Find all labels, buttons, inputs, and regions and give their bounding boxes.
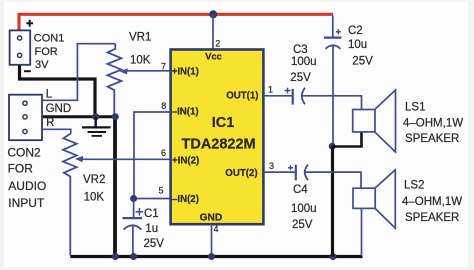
svg-text:FOR: FOR xyxy=(8,162,34,176)
node bottom bus junctions xyxy=(112,253,119,260)
svg-text:5: 5 xyxy=(158,185,163,195)
wire VR2 wiper to pin 6 xyxy=(80,158,170,160)
wire L input to VR1 top xyxy=(42,44,115,101)
svg-text:AUDIO: AUDIO xyxy=(8,179,46,193)
svg-text:–IN(1): –IN(1) xyxy=(172,106,199,117)
svg-text:C1: C1 xyxy=(144,208,159,220)
svg-text:25V: 25V xyxy=(292,219,313,231)
svg-text:FOR: FOR xyxy=(35,46,58,58)
svg-text:CON1: CON1 xyxy=(34,33,65,45)
svg-text:IC1: IC1 xyxy=(212,115,235,131)
node speaker return junction xyxy=(329,143,336,150)
svg-text:10u: 10u xyxy=(348,39,367,51)
svg-text:2: 2 xyxy=(215,39,220,49)
svg-text:C4: C4 xyxy=(293,184,308,196)
capacitor C3 xyxy=(285,88,305,105)
label CON1 minus xyxy=(24,70,31,72)
wire pin2 Vcc stub xyxy=(212,14,214,49)
connector CON2 xyxy=(9,95,42,141)
svg-text:SPEAKER: SPEAKER xyxy=(405,212,459,224)
svg-text:1u: 1u xyxy=(145,223,158,235)
wire C4 to LS2 xyxy=(305,172,362,188)
wire pin 8 to pin 5 loop xyxy=(134,112,170,199)
wire pin 5 xyxy=(134,198,170,200)
wire main ground rail vertical (black) xyxy=(113,117,117,257)
wire +3V red supply rail xyxy=(19,14,333,30)
wire C3 to LS1 xyxy=(302,96,362,110)
svg-text:R: R xyxy=(46,117,54,129)
wire CON1 minus to ground junction (black) xyxy=(20,65,96,117)
svg-text:6: 6 xyxy=(161,148,166,158)
svg-text:100u: 100u xyxy=(291,203,317,215)
svg-text:3V: 3V xyxy=(35,59,49,71)
svg-text:3: 3 xyxy=(269,161,274,171)
resistor VR1 xyxy=(108,44,122,114)
svg-text:+IN(2): +IN(2) xyxy=(172,155,199,166)
label CON1 plus xyxy=(26,20,33,27)
svg-text:25V: 25V xyxy=(290,72,311,84)
wire LS1 return (black) xyxy=(333,132,362,147)
svg-text:INPUT: INPUT xyxy=(8,196,45,210)
svg-text:OUT(2): OUT(2) xyxy=(225,168,257,179)
node ground junction 2 xyxy=(112,113,119,120)
svg-text:LS1: LS1 xyxy=(405,102,425,114)
svg-text:100u: 100u xyxy=(291,56,317,68)
svg-text:VR2: VR2 xyxy=(83,174,105,186)
speaker LS2 xyxy=(353,170,395,228)
capacitor C1 xyxy=(123,199,144,257)
connector CON1 xyxy=(10,30,31,64)
wire junction to bottom bus (black) xyxy=(331,146,334,256)
node ground junction 1 xyxy=(92,113,99,120)
svg-text:GND: GND xyxy=(200,212,223,223)
svg-text:C3: C3 xyxy=(293,44,308,56)
svg-text:8: 8 xyxy=(161,101,166,111)
wire R input to VR2 top xyxy=(42,129,71,133)
wire VR1 wiper to pin 7 xyxy=(125,70,171,72)
wire OUT(1) pin 1 to C3 xyxy=(263,95,292,97)
svg-text:L: L xyxy=(46,89,53,101)
svg-text:OUT(1): OUT(1) xyxy=(226,90,258,101)
capacitor C4 xyxy=(288,165,308,181)
svg-text:C2: C2 xyxy=(348,25,363,37)
svg-text:25V: 25V xyxy=(144,238,165,250)
svg-text:GND: GND xyxy=(46,103,72,115)
svg-text:LS2: LS2 xyxy=(404,180,424,192)
capacitor C2 xyxy=(324,16,341,147)
speaker LS1 xyxy=(353,90,396,152)
svg-text:–IN(2): –IN(2) xyxy=(172,194,199,205)
svg-text:25V: 25V xyxy=(352,56,373,68)
svg-text:7: 7 xyxy=(161,61,166,71)
svg-text:TDA2822M: TDA2822M xyxy=(182,136,256,152)
svg-text:4–OHM,1W: 4–OHM,1W xyxy=(403,118,463,130)
svg-text:+IN(1): +IN(1) xyxy=(172,67,199,78)
svg-text:4–OHM,1W: 4–OHM,1W xyxy=(402,196,462,208)
svg-text:CON2: CON2 xyxy=(7,145,41,159)
wire CON2 GND to ground rail (black) xyxy=(42,115,115,118)
ground xyxy=(82,117,111,136)
wire OUT(2) pin 3 to C4 xyxy=(263,171,295,173)
node pin5 / C1 junction xyxy=(130,195,137,202)
svg-text:VR1: VR1 xyxy=(129,31,151,43)
svg-text:10K: 10K xyxy=(84,192,105,204)
op-amp U1 IC1 TDA2822M xyxy=(171,50,264,225)
svg-text:1: 1 xyxy=(268,85,273,95)
wire LS2 return xyxy=(361,208,363,256)
svg-text:4: 4 xyxy=(214,224,219,234)
wire bottom ground bus (black) xyxy=(70,255,362,258)
node Vcc junction on red rail xyxy=(209,10,217,18)
resistor VR2 xyxy=(63,133,77,255)
wire pin 4 stub xyxy=(211,225,213,257)
svg-text:10K: 10K xyxy=(130,55,151,67)
svg-text:Vcc: Vcc xyxy=(205,51,222,61)
svg-text:SPEAKER: SPEAKER xyxy=(405,133,459,145)
